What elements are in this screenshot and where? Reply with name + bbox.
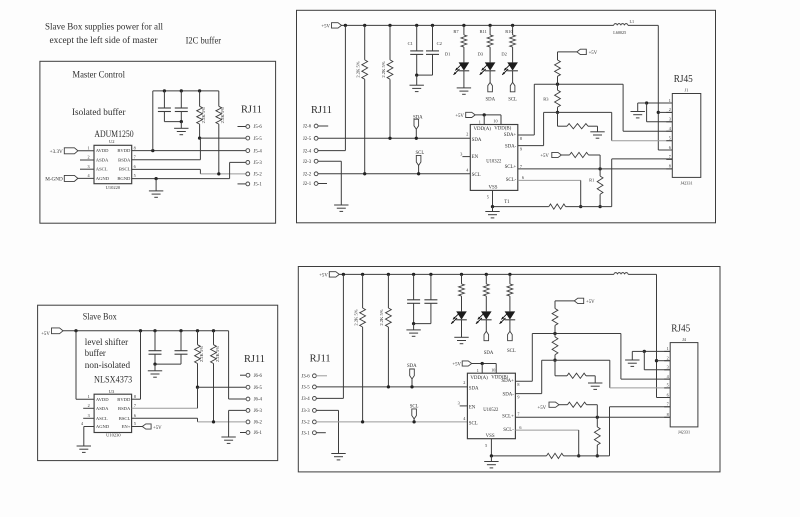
wire J3-1 stub <box>316 432 326 434</box>
resistor R7 <box>453 25 466 62</box>
junction SCL- bottom net (bottom) <box>577 454 580 457</box>
label I2C buffer <box>186 36 222 47</box>
junction SCL net pull-up <box>217 172 220 175</box>
resistor pull-up to +5V (SDA+) <box>555 52 577 84</box>
svg-text:2.2K 5%: 2.2K 5% <box>201 107 206 124</box>
wire RJ45 pin3 row (bottom) <box>644 369 670 371</box>
svg-text:3: 3 <box>460 151 462 156</box>
svg-text:SDA-: SDA- <box>502 392 514 397</box>
svg-text:3: 3 <box>88 164 90 169</box>
resistor 2.2K 5% pull-up SCL (J3) <box>353 274 365 422</box>
svg-text:RJ11: RJ11 <box>310 354 331 365</box>
label NLSX4373 <box>94 376 132 386</box>
svg-text:2.2K 5%: 2.2K 5% <box>215 346 220 363</box>
svg-text:D2: D2 <box>501 51 507 56</box>
power flag +3.3V <box>50 148 94 155</box>
svg-text:J6-1: J6-1 <box>254 431 263 436</box>
svg-text:SDA+: SDA+ <box>501 379 514 384</box>
svg-text:BSDA: BSDA <box>118 406 131 411</box>
resistor pull-up to +5V (bottom SDA+) <box>552 301 574 334</box>
svg-text:SCL-: SCL- <box>506 178 517 183</box>
label RJ11 (J5) <box>241 105 262 116</box>
svg-text:8: 8 <box>134 146 136 151</box>
wire SDA- net <box>544 111 612 113</box>
svg-text:non-isolated: non-isolated <box>85 361 131 371</box>
svg-text:T1: T1 <box>504 200 510 205</box>
net T1 bottom wire <box>493 200 612 209</box>
power flag +5V (EN+) <box>132 424 163 431</box>
U3 pin numbers <box>81 394 136 426</box>
ground (bottom caps) <box>406 324 420 337</box>
J4 pin stubs and numbers <box>664 346 670 417</box>
wire J3-5 SDA row <box>316 386 467 388</box>
svg-text:5: 5 <box>134 421 136 426</box>
svg-text:U10322: U10322 <box>486 159 502 164</box>
svg-text:EN: EN <box>469 405 476 410</box>
svg-text:J3-6: J3-6 <box>301 375 310 380</box>
U10322 pin numbers 1 and 10 <box>479 119 498 125</box>
power flag +5V (rail bottom) <box>319 272 339 279</box>
power flag +5V (SDA+ pull-up) <box>577 49 598 56</box>
resistor R10 <box>505 25 515 62</box>
svg-text:9: 9 <box>517 395 519 400</box>
svg-text:U10230: U10230 <box>106 433 121 438</box>
svg-text:SCL: SCL <box>507 349 516 354</box>
junction R1 bottom net (bottom) <box>596 454 599 457</box>
svg-text:+5V: +5V <box>455 114 464 119</box>
resistor R11 <box>480 25 493 62</box>
wire RJ45 pin5 row <box>612 140 673 142</box>
Slave Box block outline <box>38 305 278 460</box>
svg-text:J1: J1 <box>685 88 689 93</box>
junction bottom rail cap2 <box>429 273 432 276</box>
svg-text:6: 6 <box>519 425 521 430</box>
title Master Control <box>72 71 125 81</box>
junction VDD(A) riser (bottom) <box>481 362 484 365</box>
wire J2-3 row <box>318 160 341 162</box>
wire VDD(B) pin10 <box>500 115 502 125</box>
svg-text:J3-2: J3-2 <box>301 421 310 426</box>
svg-text:AGND: AGND <box>96 176 110 181</box>
junction VDD(A) riser <box>483 113 486 116</box>
svg-text:+5V: +5V <box>589 51 598 56</box>
wire J3-3 row <box>316 409 338 411</box>
wire RJ45 pin4 row <box>623 130 672 132</box>
wire SDA+ drop to RJ45 pin4 (bottom) <box>620 334 622 380</box>
junction SDA net J5-5 <box>198 136 201 139</box>
IC U3 NLSX4373 body <box>94 389 132 437</box>
junction SDA flag <box>415 137 418 140</box>
connector J6 RJ11 pins <box>246 373 262 436</box>
svg-text:J2-3: J2-3 <box>303 160 312 165</box>
wire SCL- out <box>518 179 581 181</box>
svg-text:3: 3 <box>458 401 460 406</box>
svg-text:R7: R7 <box>453 29 459 34</box>
wire VDD(B) pin10 (bottom) <box>495 364 497 374</box>
svg-text:2.2K 5%: 2.2K 5% <box>353 309 358 326</box>
wire SDA- out <box>518 145 544 147</box>
U2 pin numbers <box>88 146 136 179</box>
wire J3-2 SCL row <box>316 421 467 423</box>
junction rail R10 <box>511 24 514 27</box>
capacitor (slave bypass 2) <box>155 331 188 364</box>
svg-text:D1: D1 <box>445 51 451 56</box>
svg-text:2: 2 <box>463 380 465 385</box>
junction rail cap2 <box>180 89 183 92</box>
svg-text:8: 8 <box>667 412 669 417</box>
junction J6-5 SDA <box>196 386 199 389</box>
svg-text:5: 5 <box>669 136 671 141</box>
svg-text:7: 7 <box>669 154 671 159</box>
junction rail R11 <box>488 24 491 27</box>
svg-text:+5V: +5V <box>452 362 461 367</box>
svg-text:SDA: SDA <box>413 116 423 121</box>
wire RJ45 pin1 row <box>647 102 673 104</box>
svg-text:J5-2: J5-2 <box>254 173 263 178</box>
svg-text:NLSX4373: NLSX4373 <box>94 376 132 386</box>
ground (J2-3) <box>334 205 348 211</box>
junction bottom rail pullup SDA <box>387 273 390 276</box>
LED (bottom 2) <box>476 311 492 331</box>
junction SDA- net R3 <box>556 111 559 114</box>
svg-text:8: 8 <box>669 164 671 169</box>
capacitor (slave bypass 1) <box>149 331 162 364</box>
resistor to ground (SDA- net) <box>558 112 598 131</box>
svg-text:Isolated buffer: Isolated buffer <box>72 107 126 118</box>
junction slave rail pullup SDA <box>196 329 199 332</box>
wire SDA+ out (bottom) <box>515 380 532 382</box>
wire riser to bypass rail <box>152 91 154 151</box>
wire BVDD out <box>132 398 141 400</box>
svg-text:7: 7 <box>520 164 522 169</box>
power flag +5V (U10322) <box>455 112 475 119</box>
wire SDA- net (bottom) <box>542 359 610 361</box>
wire SCL- drop <box>580 180 582 206</box>
svg-text:3: 3 <box>669 117 671 122</box>
wire pin1 to pin3 (bottom) <box>643 351 645 369</box>
label RJ45 (J4) <box>671 323 690 334</box>
wire BSDA out <box>132 407 198 409</box>
svg-text:VDD(B): VDD(B) <box>494 127 511 132</box>
net flag SDA (J2) <box>413 116 423 139</box>
svg-text:6: 6 <box>522 175 524 180</box>
wire BSCL out <box>132 168 201 170</box>
svg-text:5: 5 <box>487 195 489 200</box>
I2C buffer block outline (bottom) <box>298 267 720 472</box>
svg-text:R3: R3 <box>543 96 549 101</box>
label ADUM1250 <box>94 130 133 140</box>
wire J5-5 row <box>200 137 246 139</box>
connector J2 RJ11 pins <box>303 124 318 187</box>
wire J2-2 SCL row <box>318 173 470 175</box>
svg-text:1: 1 <box>88 146 90 151</box>
svg-text:2.2K 5%: 2.2K 5% <box>379 309 384 326</box>
svg-text:10: 10 <box>493 119 497 124</box>
label RJ11 (J6) <box>244 354 265 365</box>
junction J3 SCL pull-up <box>361 420 364 423</box>
junction bottom caps ground <box>412 322 415 325</box>
U10322 pin number 5 <box>487 195 489 200</box>
label RJ11 (J2) <box>311 105 332 116</box>
svg-text:2: 2 <box>667 356 669 361</box>
U10522 pin numbers 1 and 10 <box>477 367 496 373</box>
wire rail to J6-4 <box>228 331 230 399</box>
svg-text:RJ45: RJ45 <box>674 74 693 85</box>
junction SDA- net R3 (bottom) <box>553 359 556 362</box>
wire BGND out <box>132 178 230 180</box>
svg-text:C1: C1 <box>408 41 413 46</box>
wire J3-3 to ground <box>338 410 340 453</box>
junction SDA pull-up <box>388 137 391 140</box>
svg-text:2.2K 5%: 2.2K 5% <box>220 107 225 124</box>
svg-text:RJ11: RJ11 <box>241 105 262 116</box>
power flag +5V (SCL+ pull-up) <box>540 152 561 159</box>
junction rail pullup SCL <box>363 24 366 27</box>
ground (RJ45 shield) <box>631 103 647 118</box>
junction slave rail BVDD <box>139 329 142 332</box>
wire +5V to VDD pins (bottom) <box>472 363 497 365</box>
svg-text:AVDD: AVDD <box>96 397 109 402</box>
junction pin2 power <box>657 111 660 114</box>
junction pin1 ground (bottom) <box>643 350 646 353</box>
ground (slave caps) <box>148 364 162 377</box>
resistor R3 <box>543 84 560 112</box>
wire VSS drop <box>492 190 494 206</box>
resistor pull-up (bottom SCL+) <box>559 402 597 417</box>
net flag SCL (J3) <box>410 404 419 422</box>
svg-text:L60025: L60025 <box>613 30 626 35</box>
wire SCL+ to RJ45 pin8 <box>518 168 673 170</box>
net flag SDA (bottom LED2) <box>484 331 494 356</box>
text buffer <box>85 348 107 359</box>
wire U3 pin2 stub <box>83 407 94 409</box>
svg-text:5: 5 <box>485 443 487 448</box>
junction SCL- bottom net <box>579 205 582 208</box>
svg-text:J2-4: J2-4 <box>303 149 312 154</box>
wire EN stub (bottom) <box>460 405 468 407</box>
inductor (bottom) <box>614 273 628 275</box>
wire J5-1 stub <box>238 183 246 185</box>
wire SDA+ riser (bottom) <box>531 334 533 382</box>
wire RJ45 pin2 row <box>658 111 672 113</box>
wire J3-4 to rail <box>342 274 344 398</box>
svg-text:SDA: SDA <box>485 97 495 102</box>
svg-text:RJ11: RJ11 <box>311 105 332 116</box>
svg-text:Slave Box supplies power for a: Slave Box supplies power for all <box>45 22 163 33</box>
resistor (bottom LED3) <box>507 274 513 311</box>
wire bottom net to RJ45 pin7 <box>611 159 613 207</box>
junction R1 bottom net <box>598 205 601 208</box>
junction J3 SDA flag <box>410 385 413 388</box>
junction rail C1 <box>415 24 418 27</box>
net flag SDA (J3) <box>407 364 417 387</box>
net flag SCL (J2) <box>415 151 424 174</box>
svg-text:J6-2: J6-2 <box>254 421 263 426</box>
svg-text:L1: L1 <box>630 19 635 24</box>
svg-text:+5V: +5V <box>41 332 50 337</box>
wire J6-1 stub <box>240 432 246 434</box>
wire SDA+ net (bottom) <box>532 333 621 335</box>
svg-text:9: 9 <box>520 146 522 151</box>
svg-text:J42331: J42331 <box>680 180 692 185</box>
svg-text:J5-6: J5-6 <box>254 125 263 130</box>
svg-text:AVDD: AVDD <box>96 148 109 153</box>
junction J3 SDA pull-up <box>387 385 390 388</box>
svg-text:VDD(A): VDD(A) <box>474 127 492 132</box>
junction caps to ground <box>180 120 183 123</box>
svg-text:J5-1: J5-1 <box>254 183 263 188</box>
ground (C1 C2) <box>410 75 424 92</box>
wire U2 pin3 stub <box>80 168 94 170</box>
svg-text:level shifter: level shifter <box>85 337 129 348</box>
svg-text:BGND: BGND <box>117 176 131 181</box>
resistor R1 <box>589 169 603 207</box>
svg-text:ASDA: ASDA <box>96 157 109 162</box>
ground (AGND) <box>77 446 91 452</box>
svg-text:buffer: buffer <box>85 348 107 359</box>
J1 pin stubs and numbers <box>666 98 672 169</box>
wire SDA+ drop to RJ45 pin4 <box>622 84 624 131</box>
svg-text:J2-2: J2-2 <box>303 173 312 178</box>
connector J3 RJ11 pins <box>301 374 316 437</box>
U10522 left pin numbers <box>458 380 467 421</box>
wire J5-2 row <box>200 173 246 175</box>
svg-text:EN+: EN+ <box>122 424 131 429</box>
wire RJ45 pin3 row <box>647 121 673 123</box>
svg-text:BVDD: BVDD <box>117 148 131 153</box>
wire +5V to VDD pins <box>475 114 501 116</box>
svg-text:7: 7 <box>134 155 136 160</box>
junction VSS ground <box>491 205 494 208</box>
svg-text:BSCL: BSCL <box>119 167 131 172</box>
svg-text:+5V: +5V <box>586 300 595 305</box>
svg-text:R1: R1 <box>589 178 594 183</box>
svg-text:SCL-: SCL- <box>503 428 514 433</box>
wire SDA+ net to RJ45 <box>534 83 623 85</box>
wire J2-4 to rail <box>344 25 346 150</box>
svg-text:+5V: +5V <box>538 406 547 411</box>
wire J6-4 row <box>229 398 247 400</box>
power flag +5V (rail) <box>321 23 341 30</box>
wire bottom net to RJ45 pin7 (bottom) <box>609 407 611 456</box>
wire BSCL drop <box>197 418 199 422</box>
svg-text:J6-3: J6-3 <box>254 409 263 414</box>
svg-text:U10220: U10220 <box>106 185 121 190</box>
wire U3 pin3 stub <box>83 417 94 419</box>
wire J6-3 to ground <box>228 410 230 437</box>
svg-text:RJ45: RJ45 <box>671 323 690 334</box>
svg-text:2: 2 <box>88 155 90 160</box>
svg-text:BSCL: BSCL <box>119 416 131 421</box>
wire J3-6 stub <box>316 375 327 377</box>
svg-text:ASCL: ASCL <box>96 167 108 172</box>
U10522 pin number 5 <box>485 443 487 448</box>
LED (bottom 3) <box>500 311 516 331</box>
svg-text:2.2K 5%: 2.2K 5% <box>356 61 361 78</box>
junction SCL pull-up <box>363 172 366 175</box>
svg-text:SCL+: SCL+ <box>505 165 517 170</box>
svg-text:+5V: +5V <box>153 426 162 431</box>
svg-text:J3-5: J3-5 <box>301 386 310 391</box>
resistor 2.2K 5% pull-up SDA (J2) <box>381 25 393 138</box>
svg-text:J6-5: J6-5 <box>254 386 263 391</box>
junction bottom rail J3-4 feed <box>342 273 345 276</box>
svg-text:J3-4: J3-4 <box>301 397 310 402</box>
svg-text:J2-1: J2-1 <box>303 182 312 187</box>
wire RJ45 pin2 row (bottom) <box>657 360 671 362</box>
svg-text:I2C buffer: I2C buffer <box>186 36 222 47</box>
wire RJ45 pin6 row <box>658 149 672 151</box>
wire RJ45 pin5 row (bottom) <box>610 387 670 389</box>
svg-text:SDA+: SDA+ <box>504 133 517 138</box>
wire J2-4 row <box>318 150 346 152</box>
svg-text:+5V: +5V <box>540 154 549 159</box>
svg-text:3: 3 <box>88 413 90 418</box>
wire AGND to ground <box>84 427 94 447</box>
junction bottom rail pullup SCL <box>361 273 364 276</box>
wire J6-2 row <box>198 421 247 423</box>
capacitor (bypass 1) <box>158 91 181 122</box>
svg-text:J5-3: J5-3 <box>254 161 263 166</box>
text level shifter <box>85 337 129 348</box>
junction rail C2 <box>431 24 434 27</box>
note line 2 <box>50 35 159 46</box>
svg-text:VSS: VSS <box>486 434 495 439</box>
wire RJ45 pin7 row <box>612 158 673 160</box>
svg-text:6: 6 <box>667 392 669 397</box>
I2C buffer block outline (top) <box>297 10 716 223</box>
ground (bypass caps) <box>174 122 188 135</box>
junction C1 C2 ground <box>415 73 418 76</box>
wire VDD(A) pin1 <box>483 115 485 125</box>
ground (D1) <box>457 88 471 94</box>
svg-text:2: 2 <box>88 403 90 408</box>
junction slave rail cap2 <box>179 329 182 332</box>
wire L1 to RJ45 riser <box>628 24 658 26</box>
svg-text:M-GND: M-GND <box>45 177 63 183</box>
IC U10522 body <box>467 373 515 439</box>
junction J3 SCL flag <box>412 420 415 423</box>
svg-text:J42331: J42331 <box>678 430 690 435</box>
wire riser to RJ45 pins 2-6 (bottom) <box>656 274 658 397</box>
connector J5 RJ11 pins <box>246 125 262 188</box>
svg-text:J6-4: J6-4 <box>254 398 263 403</box>
junction slave rail pullup SCL <box>212 329 215 332</box>
svg-text:5: 5 <box>667 383 669 388</box>
svg-text:10: 10 <box>491 367 495 372</box>
wire J5-3 row <box>230 161 246 163</box>
junction pin1 ground <box>645 101 648 104</box>
junction rail pullup SDA <box>388 24 391 27</box>
title Isolated buffer <box>72 107 126 118</box>
svg-text:J5-4: J5-4 <box>254 149 263 154</box>
ground (J3-3) <box>331 454 345 460</box>
svg-text:SDA: SDA <box>484 351 494 356</box>
bypass rail <box>153 90 219 92</box>
capacitor C2 <box>417 25 442 75</box>
svg-text:6: 6 <box>669 145 671 150</box>
wire AVDD pin1 <box>76 398 94 400</box>
junction bottom rail cap1 <box>412 273 415 276</box>
svg-text:J2-5: J2-5 <box>303 137 312 142</box>
svg-text:ASCL: ASCL <box>96 416 108 421</box>
svg-text:SCL: SCL <box>508 97 517 102</box>
svg-text:8: 8 <box>134 394 136 399</box>
svg-text:SDA-: SDA- <box>505 144 517 149</box>
wire +5V rail <box>342 24 614 26</box>
wire VSS drop (bottom) <box>490 439 492 456</box>
svg-text:SDA: SDA <box>472 138 482 143</box>
